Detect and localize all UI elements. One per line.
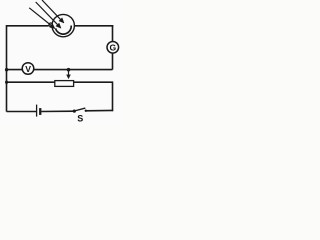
switch S contact dot left [73,110,76,113]
wire bottom middle segment [41,110,74,112]
switch S blade [74,108,85,111]
junction dot wiper / V-line [67,68,71,72]
wire top-left horizontal [7,25,49,27]
galvanometer G [107,42,119,54]
wire V-line [7,69,113,71]
light ray 1 [29,8,55,29]
wire bottom right segment [86,109,114,111]
wire bottom left segment [7,111,37,113]
junction dot left wire / V-line [5,68,8,71]
phototube cathode arc [56,26,72,35]
wire pot-line [7,81,114,83]
phototube envelope circle [52,14,74,36]
battery cell: short thick plate [39,108,41,115]
junction dot left wire / pot-line [5,81,8,84]
svg-text:V: V [25,64,31,74]
wire top-right horizontal [74,25,113,27]
light ray 2 [36,2,61,28]
wire left vertical [6,25,8,112]
potentiometer wiper arrow [67,70,71,79]
svg-text:G: G [109,43,116,53]
battery cell: long plate [36,105,38,117]
wire right lower vertical [112,82,114,112]
potentiometer body R [55,81,74,87]
switch S contact dot right [85,110,87,112]
phototube anode ring [49,23,53,27]
voltmeter V [22,63,34,75]
light ray 3 [42,0,64,23]
wire right vertical through G [112,25,114,70]
svg-text:S: S [77,114,83,124]
